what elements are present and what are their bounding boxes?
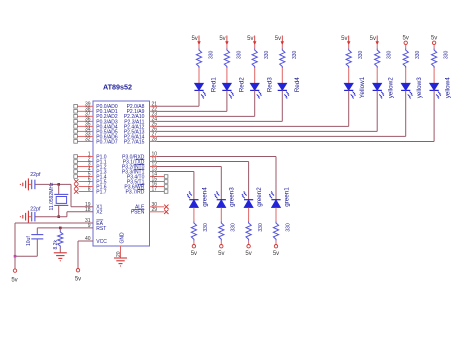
svg-text:330: 330	[258, 223, 264, 232]
pin 18 X2 number	[85, 207, 91, 213]
wire P3.1 to green2 net	[150, 162, 249, 200]
wire VCC net	[78, 241, 93, 268]
power +5V terminal (yellow4)	[431, 36, 437, 45]
pin 13 P3.3 number	[152, 167, 158, 173]
ground (8.2k)	[54, 253, 67, 261]
power +5V terminal (EA)	[11, 269, 17, 284]
pin 10 P3.0 number	[152, 152, 158, 158]
svg-text:5v: 5v	[431, 36, 437, 42]
svg-text:5v: 5v	[191, 36, 197, 42]
pin 40 VCC number	[85, 236, 91, 242]
wire yellow4 to P2.7 net	[150, 90, 435, 141]
svg-text:330: 330	[444, 50, 450, 59]
svg-text:Red1: Red1	[211, 77, 218, 93]
power +5V terminal (VCC)	[75, 269, 81, 283]
svg-text:PSEN: PSEN	[131, 210, 145, 216]
power +5V terminal (Red3)	[247, 36, 256, 46]
svg-text:5v: 5v	[245, 251, 251, 257]
wire EA net	[15, 223, 93, 269]
svg-text:32: 32	[85, 137, 91, 143]
LED green4	[187, 187, 209, 208]
wire cap top	[36, 228, 38, 235]
wire R to LED yellow2	[376, 68, 378, 83]
junction EA/cap	[14, 255, 17, 258]
pin 9 RST number	[88, 223, 91, 229]
LED Red3	[250, 77, 273, 99]
svg-text:330: 330	[285, 223, 291, 232]
power +5V terminal (Red4)	[275, 36, 284, 46]
svg-text:22pf: 22pf	[30, 206, 41, 212]
power +5V terminal (green2)	[245, 245, 251, 258]
svg-text:yellow2: yellow2	[388, 77, 395, 98]
svg-text:5v: 5v	[11, 278, 17, 284]
resistor 330 (yellow3)	[403, 49, 421, 69]
capacitor C2 22pf	[28, 206, 41, 221]
LED Yellow1	[344, 76, 366, 99]
wire crystal bottom	[58, 205, 60, 216]
svg-text:330: 330	[415, 50, 421, 59]
svg-text:330: 330	[387, 50, 393, 59]
svg-text:P1.7: P1.7	[96, 189, 107, 195]
ground (C2)	[20, 211, 28, 223]
pin 30 ALE stub	[150, 202, 169, 209]
junction X2/crystal	[57, 215, 60, 218]
svg-text:330: 330	[292, 50, 298, 59]
resistor 330 (yellow4)	[432, 49, 450, 69]
power +5V terminal (yellow3)	[403, 36, 409, 45]
wire yellow3 to P2.6 net	[150, 90, 406, 136]
capacitor C1 22pf	[28, 172, 41, 189]
wire 5v to R (yellow2)	[376, 45, 378, 49]
wire R to LED yellow4	[433, 68, 435, 83]
pin 2 P1.1 stub	[74, 157, 93, 164]
pin 27 P2.6 number	[152, 132, 158, 138]
svg-text:5v: 5v	[370, 36, 376, 42]
svg-text:AT89s52: AT89s52	[103, 83, 132, 92]
svg-text:5v: 5v	[275, 36, 281, 42]
pin 3 P1.2 stub	[74, 162, 93, 169]
LED yellow3	[401, 77, 423, 99]
svg-text:330: 330	[236, 50, 242, 59]
wire Red2 to P2.1 net	[150, 90, 227, 111]
svg-text:yellow4: yellow4	[444, 77, 451, 98]
pin 33 P0.6/AD6 stub	[74, 132, 93, 139]
resistor 330 (green4)	[191, 222, 209, 241]
svg-text:green4: green4	[201, 187, 208, 207]
pin 19 X1 number	[85, 202, 91, 208]
wire cap bottom	[15, 239, 37, 256]
LED green2	[242, 187, 264, 208]
wire R to LED Yellow1	[348, 68, 350, 83]
svg-text:20: 20	[116, 251, 122, 257]
svg-text:330: 330	[203, 223, 209, 232]
svg-text:11.0592MHz: 11.0592MHz	[49, 182, 55, 210]
wire LED to R (green2)	[248, 208, 250, 222]
svg-text:Yellow1: Yellow1	[359, 76, 366, 98]
wire Red4 to P2.3 net	[150, 90, 283, 121]
svg-text:5v: 5v	[191, 251, 197, 257]
pin 25 P2.4 number	[152, 121, 158, 127]
resistor 330 (Red4)	[280, 49, 298, 69]
wire Red3 to P2.2 net	[150, 90, 255, 116]
pin 38 P0.1/AD1 stub	[74, 106, 93, 113]
wire LED to R (green3)	[220, 208, 222, 222]
pin 36 P0.3/AD3 stub	[74, 116, 93, 123]
resistor 330 (Yellow1)	[346, 49, 364, 69]
pin 22 P2.1 number	[152, 106, 158, 112]
wire 5v to R3	[254, 45, 256, 49]
power +5V terminal (green4)	[191, 245, 197, 258]
wire Red1 to P2.0 net	[150, 90, 200, 106]
pin 14 P3.4 stub	[150, 172, 168, 179]
pin 31 EA number	[85, 218, 91, 224]
wire 5v to R (yellow3)	[405, 45, 407, 49]
svg-text:P3.7/RD: P3.7/RD	[125, 189, 144, 195]
LED Red2	[222, 77, 245, 99]
svg-text:330: 330	[358, 50, 364, 59]
svg-text:330: 330	[264, 50, 270, 59]
svg-text:5v: 5v	[403, 36, 409, 42]
resistor 330 (green2)	[246, 222, 264, 241]
wire 5v to R1	[198, 45, 200, 49]
svg-text:green1: green1	[283, 187, 290, 207]
resistor 330 (Red2)	[224, 49, 242, 69]
pin 24 P2.3 number	[152, 116, 158, 122]
wire R to LED Red4	[281, 68, 283, 83]
pin 15 P3.5 stub	[150, 177, 168, 184]
svg-text:X2: X2	[96, 210, 102, 216]
wire R to LED Red2	[226, 68, 228, 83]
pin 32 P0.7/AD7 stub	[74, 137, 93, 144]
svg-text:5v: 5v	[273, 251, 279, 257]
wire 5v to R (yellow4)	[433, 45, 435, 49]
wire R to 5v (green3)	[220, 241, 222, 245]
LED Red1	[194, 77, 217, 99]
LED green3	[214, 187, 236, 208]
LED yellow4	[430, 77, 452, 99]
wire LED to R (green1)	[275, 208, 277, 222]
capacitor 10uf	[26, 235, 43, 246]
svg-text:P2.7/A15: P2.7/A15	[124, 139, 145, 145]
junction X1/crystal	[57, 183, 60, 186]
svg-text:22pf: 22pf	[30, 172, 41, 178]
resistor 330 (green3)	[219, 222, 237, 241]
wire RST net	[37, 227, 93, 229]
resistor 330 (Red1)	[196, 49, 214, 69]
pin 23 P2.2 number	[152, 111, 158, 117]
svg-text:8: 8	[88, 187, 91, 193]
resistor 330 (yellow2)	[375, 49, 393, 69]
ground (GND pin)	[114, 258, 127, 266]
wire LED to R (green4)	[193, 208, 195, 222]
power +5V terminal (yellow2)	[370, 36, 379, 46]
wire Yellow1 to P2.4 net	[150, 90, 349, 126]
ground (C1)	[20, 178, 28, 190]
wire R to LED Red3	[254, 68, 256, 83]
wire P3.0 to green1 net	[150, 157, 277, 200]
svg-text:Red3: Red3	[266, 77, 273, 93]
junction RST/R 8.2k	[59, 227, 62, 230]
power +5V terminal (green1)	[273, 245, 279, 258]
pin 5 P1.4 stub	[74, 172, 93, 179]
svg-text:330: 330	[231, 223, 237, 232]
resistor 330 (green1)	[273, 222, 291, 241]
wire crystal top	[58, 184, 60, 194]
LED green1	[269, 187, 291, 208]
pin 39 P0.0/AD0 stub	[74, 101, 93, 108]
resistor 8.2k	[53, 228, 63, 253]
wire P3.2 to green3 net	[150, 167, 222, 200]
svg-text:10uf: 10uf	[26, 236, 32, 246]
power +5V terminal (green3)	[218, 245, 224, 258]
svg-text:17: 17	[152, 187, 158, 193]
pin 34 P0.5/AD5 stub	[74, 127, 93, 134]
svg-text:29: 29	[152, 207, 158, 213]
pin 16 P3.6 stub	[150, 182, 168, 189]
pin 21 P2.0 number	[152, 101, 158, 107]
pin 1 P1.0 stub	[74, 152, 93, 159]
pin 37 P0.2/AD2 stub	[74, 111, 93, 118]
svg-text:green3: green3	[229, 187, 236, 207]
svg-text:RST: RST	[96, 226, 106, 232]
LED Red4	[278, 77, 301, 99]
IC U1 AT89s52 microcontroller	[93, 83, 150, 247]
svg-text:5v: 5v	[218, 251, 224, 257]
wire R to LED yellow3	[405, 68, 407, 83]
power +5V terminal (Red1)	[191, 36, 200, 46]
crystal 11.0592MHz	[49, 182, 68, 210]
pin 17 P3.7 stub	[150, 187, 168, 194]
wire R to 5v (green2)	[248, 241, 250, 245]
svg-text:330: 330	[209, 50, 215, 59]
pin 29 PSEN stub	[150, 207, 169, 214]
resistor 330 (Red3)	[252, 49, 270, 69]
svg-text:GND: GND	[119, 232, 125, 244]
svg-text:yellow3: yellow3	[416, 77, 423, 98]
wire 5v to R (Yellow1)	[348, 45, 350, 49]
wire GND pin 20	[116, 246, 122, 258]
wire 5v to R4	[281, 45, 283, 49]
power +5V terminal (Yellow1)	[341, 36, 350, 46]
wire P3.3 to green4 net	[150, 172, 194, 200]
pin 6 P1.5 stub	[74, 177, 93, 184]
pin 4 P1.3 stub	[74, 167, 93, 174]
svg-text:Red2: Red2	[239, 77, 246, 93]
wire X1 net	[35, 184, 93, 206]
svg-text:VCC: VCC	[96, 239, 107, 245]
pin 7 P1.6 stub	[74, 182, 93, 189]
svg-text:green2: green2	[256, 187, 263, 207]
svg-text:5v: 5v	[75, 277, 81, 283]
pin 12 P3.2 number	[152, 162, 158, 168]
wire R to 5v (green4)	[193, 241, 195, 245]
svg-text:8.2k: 8.2k	[53, 240, 59, 250]
pin 11 P3.1 number	[152, 157, 157, 163]
wire X2 net	[35, 212, 93, 217]
pin 8 P1.7 stub	[74, 187, 93, 194]
power +5V terminal (Red2)	[219, 36, 228, 46]
LED yellow2	[373, 77, 395, 99]
pin 35 P0.4/AD4 stub	[74, 121, 93, 128]
wire 5v to R2	[226, 45, 228, 49]
svg-text:Red4: Red4	[294, 77, 301, 93]
svg-text:P0.7/AD7: P0.7/AD7	[96, 139, 118, 145]
svg-text:5v: 5v	[341, 36, 347, 42]
svg-text:5v: 5v	[219, 36, 225, 42]
wire R to 5v (green1)	[275, 241, 277, 245]
wire yellow2 to P2.5 net	[150, 90, 378, 131]
wire R to LED Red1	[198, 68, 200, 83]
pin 28 P2.7 number	[152, 137, 158, 143]
pin 26 P2.5 number	[152, 127, 158, 133]
svg-text:5v: 5v	[247, 36, 253, 42]
